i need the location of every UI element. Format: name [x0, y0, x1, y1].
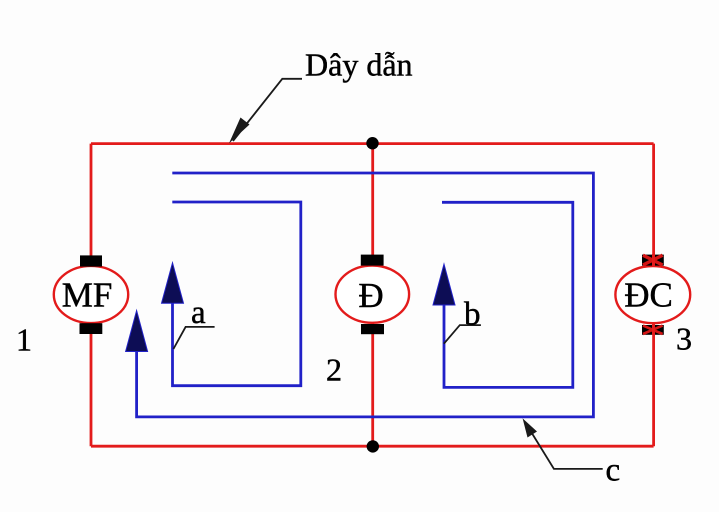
svg-text:Dây dẫn: Dây dẫn	[305, 47, 413, 83]
svg-text:ĐC: ĐC	[624, 275, 673, 314]
red cross on DC top terminal	[643, 255, 663, 265]
red wire over DC top terminal	[652, 254, 655, 266]
leader line for Day dan	[233, 79, 302, 141]
terminal bar bottom of MF	[80, 323, 103, 334]
wire: left red conductor (through MF)	[90, 144, 93, 447]
wire: middle red branch (through lamp D)	[371, 144, 374, 447]
motor DC (ellipse)	[615, 266, 690, 323]
red cross on DC bottom terminal	[643, 326, 663, 334]
svg-text:a: a	[191, 295, 206, 331]
terminal bar top of D	[361, 255, 384, 266]
node: bottom junction dot	[367, 440, 379, 452]
wire: blue loop b (right flux loop)	[442, 202, 573, 387]
svg-text:2: 2	[326, 352, 342, 388]
wire: bottom red conductor	[91, 445, 654, 448]
leader line for label c	[525, 422, 603, 469]
svg-text:Đ: Đ	[358, 276, 383, 315]
red wire over DC bottom terminal	[652, 324, 655, 335]
svg-text:1: 1	[16, 322, 32, 358]
wire: blue loop a (left flux loop)	[172, 202, 300, 386]
arrow on loop b	[433, 264, 455, 305]
terminal bar top of MF	[80, 255, 102, 266]
svg-text:b: b	[464, 297, 481, 333]
node: top junction dot	[366, 137, 378, 149]
svg-text:3: 3	[676, 321, 692, 357]
svg-text:c: c	[606, 453, 621, 489]
terminal bar bottom of DC	[642, 325, 664, 335]
leader line for label a	[173, 327, 214, 349]
wire: top red conductor	[91, 142, 654, 145]
wire: blue loop c (outer flux loop)	[137, 173, 594, 417]
arrow on loop a	[162, 263, 184, 304]
svg-text:MF: MF	[62, 276, 113, 315]
leader line for label b	[444, 325, 481, 344]
terminal bar top of DC	[642, 255, 664, 266]
wire: right red conductor (through DC)	[652, 144, 655, 447]
arrowhead of label c leader	[523, 418, 537, 437]
terminal bar bottom of D	[361, 324, 384, 334]
arrowhead of Day dan leader	[229, 118, 250, 144]
arrow on loop c	[126, 311, 148, 352]
lamp D (ellipse)	[336, 266, 410, 323]
generator MF (ellipse)	[54, 266, 128, 323]
